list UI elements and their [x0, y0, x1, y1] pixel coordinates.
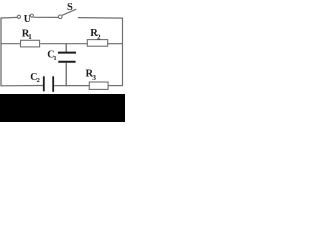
- capacitor C1 top stem: [65, 44, 67, 52]
- terminal circle right of U: [30, 14, 33, 17]
- svg-text:2: 2: [37, 77, 40, 84]
- capacitor C1 bottom plate: [58, 61, 75, 63]
- wire top middle segment: [34, 16, 59, 18]
- resistor R1: [21, 40, 40, 47]
- wire top-right horizontal: [78, 17, 123, 20]
- terminal circle left of U: [17, 15, 20, 18]
- svg-text:3: 3: [92, 73, 96, 82]
- svg-text:1: 1: [28, 33, 32, 41]
- capacitor C2 left plate: [43, 76, 45, 91]
- capacitor C1 bottom stem: [65, 63, 67, 87]
- capacitor C1 top plate: [58, 52, 76, 54]
- resistor R3: [89, 82, 108, 89]
- svg-text:1: 1: [53, 55, 56, 62]
- svg-text:S: S: [67, 2, 73, 13]
- switch S pivot circle: [58, 15, 62, 19]
- wire R2 to right vertical: [108, 43, 123, 45]
- wire R3 to right vertical: [109, 85, 124, 87]
- wire bottom-left to C2: [1, 85, 43, 87]
- wire middle-left to R1: [1, 43, 21, 45]
- left vertical wire: [0, 17, 2, 86]
- right vertical wire: [122, 18, 124, 87]
- black bar bottom: [0, 94, 125, 122]
- wire between R1 and R2: [40, 43, 87, 45]
- wire top-left horizontal: [1, 16, 17, 19]
- wire C2 to R3: [54, 85, 89, 87]
- resistor R2: [87, 40, 107, 47]
- svg-text:2: 2: [97, 32, 101, 41]
- switch S lever: [62, 9, 76, 15]
- capacitor C2 right plate: [52, 76, 54, 92]
